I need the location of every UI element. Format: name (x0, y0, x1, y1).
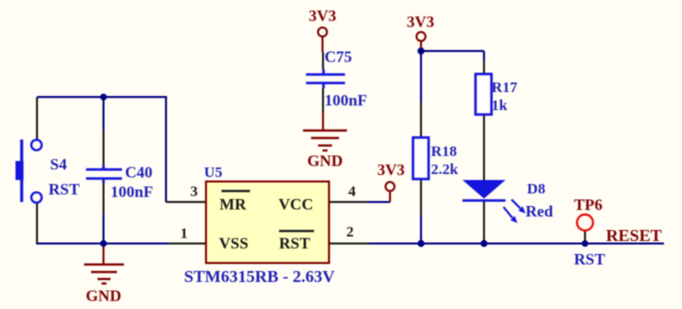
svg-text:2.2k: 2.2k (431, 162, 459, 178)
svg-text:R18: R18 (431, 144, 457, 160)
svg-text:RST: RST (574, 252, 605, 269)
svg-text:D8: D8 (527, 182, 545, 198)
svg-text:2: 2 (346, 225, 354, 241)
svg-text:MR: MR (220, 197, 247, 214)
svg-text:VCC: VCC (279, 197, 314, 214)
svg-text:3: 3 (190, 184, 198, 200)
svg-text:VSS: VSS (219, 236, 248, 253)
svg-text:100nF: 100nF (325, 93, 368, 110)
svg-text:100nF: 100nF (111, 184, 154, 201)
svg-text:RST: RST (279, 236, 310, 253)
svg-text:C40: C40 (125, 165, 153, 182)
svg-text:1k: 1k (492, 98, 509, 114)
svg-text:3V3: 3V3 (407, 14, 435, 31)
svg-text:GND: GND (307, 153, 343, 170)
svg-text:3V3: 3V3 (377, 162, 405, 179)
svg-text:GND: GND (86, 288, 122, 305)
svg-text:U5: U5 (204, 165, 222, 181)
svg-text:1: 1 (180, 226, 188, 242)
svg-text:C75: C75 (325, 49, 353, 66)
svg-text:RST: RST (49, 182, 80, 199)
svg-text:Red: Red (526, 204, 554, 221)
svg-text:RESET: RESET (606, 226, 662, 245)
svg-text:4: 4 (348, 184, 356, 200)
svg-text:R17: R17 (492, 80, 518, 96)
svg-text:STM6315RB - 2.63V: STM6315RB - 2.63V (184, 267, 335, 286)
svg-text:S4: S4 (50, 157, 67, 174)
svg-text:3V3: 3V3 (309, 8, 337, 25)
svg-text:TP6: TP6 (574, 197, 602, 214)
